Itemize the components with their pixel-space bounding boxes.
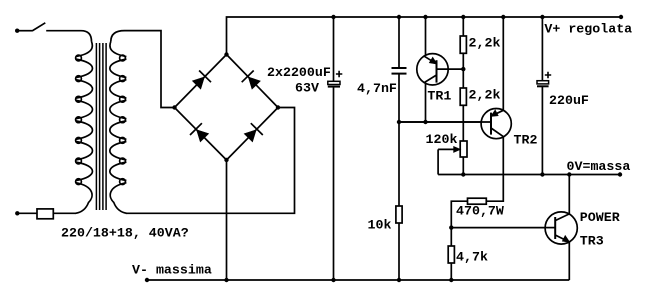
wire	[398, 122, 400, 206]
transformer T1 core	[96, 43, 106, 210]
transformer T1 primary winding arcs	[76, 42, 93, 214]
wire	[126, 108, 295, 214]
svg-text:4,7nF: 4,7nF	[357, 81, 397, 96]
junction	[449, 278, 453, 282]
svg-text:V+ regolata: V+ regolata	[544, 21, 632, 36]
transformer T1 secondary top corner	[111, 31, 125, 42]
svg-text:2x2200uF: 2x2200uF	[267, 65, 331, 80]
bridge arm wire	[175, 55, 227, 108]
bridge arm wire	[227, 55, 279, 108]
junction	[540, 172, 544, 176]
transistor TR2 (PNP)	[399, 110, 503, 137]
transformer T1 primary winding loops	[76, 55, 82, 184]
svg-text:220/18+18, 40VA?: 220/18+18, 40VA?	[61, 226, 189, 241]
node TR1 base divider	[461, 67, 465, 71]
svg-text:V- massima: V- massima	[132, 263, 212, 278]
wire TR3 emitter	[568, 240, 570, 280]
node bridge top (DC+)	[224, 52, 228, 56]
svg-text:2,2k: 2,2k	[469, 88, 501, 103]
wire	[398, 17, 400, 68]
junction	[461, 172, 465, 176]
capacitor C3 220uF plus sign	[545, 72, 551, 78]
bridge arm wire	[175, 108, 227, 161]
svg-text:2,2k: 2,2k	[469, 36, 501, 51]
transformer T1 secondary winding loops	[120, 55, 126, 184]
node bridge bottom (DC-)	[224, 158, 228, 162]
diode D1 (bridge top-left)	[192, 77, 204, 89]
svg-text:120k: 120k	[426, 132, 458, 147]
capacitor C1 2x2200uF	[328, 81, 340, 84]
wire	[333, 17, 335, 82]
wire pot wiper to 0V	[437, 149, 439, 174]
resistor R6 4,7k	[448, 246, 454, 263]
wire	[451, 201, 467, 227]
svg-text:TR1: TR1	[427, 88, 451, 103]
wire V+ unregulated top rail	[227, 17, 622, 55]
wire	[17, 30, 32, 32]
junction	[501, 15, 505, 19]
svg-text:0V=massa: 0V=massa	[567, 159, 631, 174]
junction	[224, 278, 228, 282]
wire	[462, 53, 464, 88]
diode D3 (bridge bottom-left)	[197, 130, 209, 142]
svg-text:220uF: 220uF	[549, 93, 589, 108]
wire	[462, 17, 464, 36]
wire TR2 base	[399, 121, 491, 123]
wire	[226, 160, 228, 280]
wire	[462, 157, 464, 175]
mains input terminal (top)	[15, 29, 19, 33]
capacitor C3 220uF	[537, 81, 549, 84]
svg-text:TR3: TR3	[580, 234, 604, 249]
wire TR1 collector	[425, 81, 427, 122]
junction	[397, 15, 401, 19]
transistor Q3 body	[545, 212, 577, 244]
svg-text:63V: 63V	[295, 81, 319, 96]
wire V- bottom rail	[147, 279, 569, 281]
fuse F1	[37, 209, 53, 219]
wire	[398, 223, 400, 280]
wire TR3 base	[451, 227, 545, 229]
wire	[541, 86, 543, 174]
switch S1 blade	[32, 23, 45, 31]
transistor Q1 body	[417, 54, 448, 85]
potentiometer R4 wiper arrow	[438, 148, 455, 150]
wire	[450, 228, 452, 246]
capacitor C2 4,7nF	[392, 67, 407, 69]
svg-text:10k: 10k	[368, 218, 392, 233]
wire	[450, 263, 452, 280]
resistor R5 470,7W	[468, 198, 487, 204]
resistor R1 10k	[396, 206, 402, 223]
junction	[397, 278, 401, 282]
potentiometer R4 120k body	[460, 141, 467, 157]
capacitor C1 2x2200uF plus sign	[336, 71, 342, 77]
junction	[331, 278, 335, 282]
wire	[46, 30, 81, 32]
transformer T1 secondary winding arcs	[110, 42, 127, 214]
bridge arm wire	[227, 108, 279, 161]
transistor Q2 body	[481, 109, 511, 139]
wire TR1 emitter	[425, 17, 427, 58]
wire	[17, 212, 37, 214]
mains input terminal (bottom)	[15, 211, 19, 215]
junction	[540, 15, 544, 19]
node TR1 collector / TR2 base net	[397, 120, 401, 124]
svg-text:470,7W: 470,7W	[456, 204, 504, 219]
wire TR2 collector	[486, 135, 503, 201]
transformer T1 primary top corner	[81, 31, 92, 42]
svg-text:POWER: POWER	[580, 210, 620, 225]
junction	[461, 15, 465, 19]
wire	[541, 17, 543, 81]
junction	[423, 120, 427, 124]
terminal 0V=massa	[618, 172, 622, 176]
junction	[423, 15, 427, 19]
node bridge left (AC)	[172, 105, 176, 109]
junction	[331, 15, 335, 19]
wire	[398, 74, 400, 122]
resistor R2 2,2k	[460, 36, 466, 53]
wire	[462, 105, 464, 141]
diode D4 (bridge bottom-right)	[244, 130, 256, 142]
svg-text:TR2: TR2	[514, 133, 538, 148]
diode D2 (bridge top-right)	[248, 77, 260, 89]
terminal V+ regolata	[619, 15, 623, 19]
svg-text:4,7k: 4,7k	[456, 250, 488, 265]
wire	[125, 31, 175, 108]
resistor R3 2,2k	[460, 88, 466, 105]
wire 0V rail	[438, 174, 620, 176]
junction	[449, 225, 453, 229]
terminal V- massima	[145, 278, 149, 282]
wire TR2 emitter	[502, 17, 504, 112]
transistor TR3 (NPN power)	[546, 214, 570, 242]
wire TR3 collector	[568, 175, 570, 217]
junction	[567, 172, 571, 176]
wire	[333, 87, 335, 280]
transistor TR1 (PNP)	[424, 56, 463, 82]
node bridge right (AC)	[276, 105, 280, 109]
wire	[53, 212, 76, 214]
